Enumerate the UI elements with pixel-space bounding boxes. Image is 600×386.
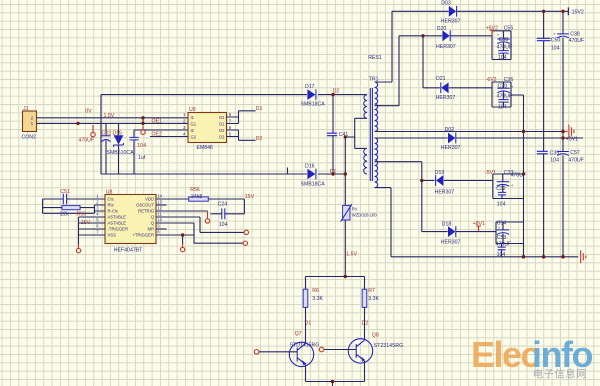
wire U9 pin3 branch	[134, 130, 188, 137]
capacitor 104 ring1	[503, 53, 505, 59]
wire ground rail mid y131.5	[375, 131, 566, 133]
wire U8 pin12	[156, 210, 208, 212]
svg-text:C53: C53	[497, 235, 507, 241]
wire stub near bottom rail	[287, 168, 289, 175]
svg-text:1uf: 1uf	[138, 155, 146, 161]
transformer TR1 secondary coil upper	[375, 82, 378, 132]
svg-text:104: 104	[497, 252, 506, 258]
svg-text:24k8: 24k8	[191, 194, 202, 200]
svg-text:HER307: HER307	[436, 95, 456, 101]
svg-text:C50: C50	[551, 37, 561, 43]
svg-text:D2: D2	[256, 136, 263, 142]
power port red pin12	[207, 211, 209, 219]
svg-text:-6V2: -6V2	[486, 77, 497, 83]
svg-text:O2: O2	[219, 134, 225, 139]
power port red below U8 left	[78, 244, 80, 248]
power port red pin8	[182, 244, 184, 247]
svg-text:1.5V: 1.5V	[104, 113, 115, 119]
power port red +6V2	[490, 30, 495, 36]
svg-text:10: 10	[157, 218, 162, 223]
svg-text:G1: G1	[191, 121, 197, 126]
varistor RV WZD020-100	[343, 205, 350, 220]
svg-text:D03: D03	[441, 0, 451, 6]
svg-text:J1: J1	[23, 106, 29, 112]
wire D21 branch	[423, 36, 492, 88]
svg-text:13: 13	[157, 200, 162, 205]
diode D18 HER307	[448, 226, 455, 237]
svg-text:ASTABLE: ASTABLE	[108, 221, 127, 226]
wire secondary tap1 to 15V2 rail	[375, 11, 569, 82]
svg-text:STD1415RG: STD1415RG	[290, 342, 320, 348]
svg-text:15V: 15V	[81, 220, 91, 226]
svg-text:D19: D19	[435, 170, 445, 176]
svg-text:3.3K: 3.3K	[368, 296, 379, 302]
filter ring +6V2 wires	[492, 31, 511, 60]
svg-text:HER307: HER307	[441, 18, 461, 24]
svg-text:HER307: HER307	[441, 145, 461, 151]
wire R6 to Q7 collector	[305, 307, 307, 343]
diode D15 TVS SMB610CA	[118, 123, 120, 174]
capacitor C24	[211, 199, 245, 214]
capacitor 104 ring4	[501, 244, 503, 257]
capacitor C32	[502, 174, 504, 192]
svg-text:HER307: HER307	[441, 239, 461, 245]
svg-text:-5V1: -5V1	[485, 170, 496, 176]
svg-text:Q7: Q7	[295, 331, 302, 337]
diode D20 HER307	[442, 30, 449, 41]
capacitor 104 ceramic	[133, 140, 135, 174]
wire U8 pin8	[156, 235, 194, 244]
resistor R6 3.3K	[303, 289, 308, 307]
svg-text:MR: MR	[147, 227, 154, 232]
svg-text:CON2: CON2	[22, 135, 37, 141]
svg-text:-TRIGGER: -TRIGGER	[108, 227, 128, 232]
diode D16 SMB18CA	[307, 169, 315, 180]
power port red on x143	[142, 126, 144, 131]
svg-text:1.5V: 1.5V	[346, 252, 357, 258]
svg-text:O1: O1	[219, 115, 225, 120]
svg-text:C57: C57	[570, 150, 580, 156]
svg-text:SMB18CA: SMB18CA	[301, 101, 326, 107]
svg-text:104: 104	[498, 55, 507, 61]
svg-text:15V: 15V	[245, 194, 255, 200]
wire secondary bottom tap to ground rail	[375, 188, 391, 257]
svg-text:R7: R7	[368, 288, 375, 294]
svg-text:OE1: OE1	[152, 119, 162, 125]
svg-text:U8: U8	[106, 190, 113, 196]
svg-text:WZD020-100: WZD020-100	[352, 213, 378, 218]
port circle Q8 base	[319, 347, 324, 352]
svg-text:电子信息网: 电子信息网	[533, 368, 587, 381]
svg-text:470UF: 470UF	[569, 38, 585, 44]
wire ground rail bottom	[391, 256, 578, 258]
svg-text:G2: G2	[191, 134, 197, 139]
svg-text:+TRIGGER: +TRIGGER	[132, 233, 154, 238]
wire U8 pins 4-7 left bus	[79, 217, 106, 244]
transistor Q8 ST2314SRG	[348, 339, 372, 363]
filter ring -5V1 wires	[493, 174, 524, 199]
wire secondary tap to D19	[375, 162, 422, 232]
svg-text:C30: C30	[499, 37, 509, 43]
svg-text:D21: D21	[436, 76, 446, 82]
svg-text:R6: R6	[312, 288, 319, 294]
svg-text:470UF: 470UF	[497, 44, 513, 50]
svg-text:C38: C38	[570, 32, 580, 38]
power ground chassis mid-right	[563, 131, 568, 133]
connector J1	[23, 111, 37, 132]
diode D02 HER307	[448, 133, 455, 144]
svg-text:C36: C36	[504, 77, 514, 83]
transformer TR1 primary coil upper	[364, 95, 367, 119]
op-amp U9 EM846	[188, 113, 227, 143]
vertical rail B with capacitor C50 104 and C39 104	[543, 11, 545, 256]
svg-text:15V2: 15V2	[572, 10, 584, 16]
wire U9 outputs top to node D1	[227, 111, 256, 124]
svg-text:SMB610CA: SMB610CA	[107, 150, 135, 156]
svg-text:O2: O2	[219, 128, 225, 133]
svg-text:+5V1: +5V1	[566, 137, 578, 143]
wire U9 outputs bottom to node D2	[227, 130, 256, 140]
svg-text:104: 104	[219, 222, 228, 228]
svg-text:RV: RV	[352, 207, 358, 212]
svg-text:VDD: VDD	[145, 197, 154, 202]
svg-text:C55: C55	[504, 25, 514, 31]
resistor R56	[156, 198, 244, 200]
svg-text:OE2: OE2	[152, 132, 162, 138]
wire R7 to Q8 collector	[364, 307, 366, 339]
power port 15V2	[567, 7, 569, 15]
svg-text:R56: R56	[190, 187, 200, 193]
port circle Q	[243, 241, 247, 245]
vertical rail C with capacitor C38 and C57	[562, 11, 564, 256]
svg-text:HER307: HER307	[435, 189, 455, 195]
svg-text:104: 104	[137, 143, 146, 149]
power ground chassis bottom-right	[581, 250, 586, 263]
vertical rail A	[523, 95, 525, 257]
wire D18 row	[422, 231, 496, 233]
capacitor C51	[43, 198, 105, 200]
svg-text:O1: O1	[219, 121, 225, 126]
svg-text:470UF: 470UF	[79, 137, 95, 143]
diode D19 HER307	[436, 175, 443, 186]
wire left loop vertical	[100, 95, 102, 174]
diode D21 HER307	[441, 82, 448, 93]
diode D03 HER307	[449, 6, 456, 17]
svg-text:C32: C32	[496, 186, 506, 192]
svg-text:0V: 0V	[85, 108, 92, 114]
wire 5V1 rail y138	[375, 137, 583, 139]
capacitor 104 ring2	[503, 102, 505, 107]
svg-text:470UF: 470UF	[497, 94, 513, 100]
wire D19 row	[422, 180, 493, 182]
transformer TR1 secondary coil lower	[375, 138, 378, 188]
capacitor C22	[105, 123, 107, 174]
svg-text:Q8: Q8	[372, 332, 379, 338]
port circle Q-bar	[244, 230, 248, 234]
svg-text:3.3K: 3.3K	[312, 296, 323, 302]
svg-text:ST2314SRG: ST2314SRG	[374, 343, 403, 349]
svg-text:C51: C51	[60, 189, 70, 195]
svg-text:D1: D1	[256, 106, 263, 112]
wire U8 pin11 Q-bar out	[156, 217, 244, 232]
capacitor C29 470UF	[503, 82, 505, 100]
svg-text:12: 12	[157, 206, 162, 211]
svg-text:D18: D18	[442, 221, 452, 227]
svg-text:D16: D16	[305, 163, 315, 169]
power port red near J1	[92, 125, 94, 132]
svg-text:Rtc: Rtc	[108, 203, 114, 208]
svg-text:104: 104	[551, 45, 560, 51]
wire varistor branch	[344, 137, 346, 277]
wire Q7 base	[259, 351, 297, 353]
logo watermark Elecinfo	[471, 334, 592, 381]
IC U8 HEF4047BT	[105, 195, 156, 244]
svg-text:EM846: EM846	[197, 145, 214, 151]
wire Q8 base	[324, 349, 356, 351]
svg-text:RETRIG: RETRIG	[138, 209, 154, 214]
diode D17 SMB18CA	[307, 89, 315, 100]
svg-text:104: 104	[498, 104, 507, 110]
wire secondary tap2 to D20 row	[375, 36, 492, 106]
svg-text:Elec: Elec	[471, 334, 540, 375]
svg-text:OSCOUT: OSCOUT	[136, 203, 154, 208]
svg-text:C29: C29	[498, 84, 508, 90]
svg-text:HER307: HER307	[436, 44, 456, 50]
capacitor C41	[332, 95, 334, 174]
junction dots J1 area	[76, 122, 79, 125]
transformer TR1 core	[370, 88, 372, 181]
svg-text:104: 104	[550, 158, 559, 164]
wire U9 pin4 branch	[150, 136, 188, 138]
wire J1 pin2 to U9 pin1	[37, 117, 189, 119]
wire vertical at x143	[142, 118, 144, 124]
svg-text:11: 11	[157, 212, 162, 217]
wire bottom rail D1 net	[101, 173, 345, 175]
wire U8 pin13 stub	[156, 204, 167, 206]
wire U8 pin9 stub	[156, 228, 167, 230]
svg-text:22k: 22k	[60, 211, 69, 217]
filter ring +8V1 wires	[496, 222, 524, 244]
wire U8 pin10 Q out	[156, 223, 243, 243]
transistor Q7 STD1415RG	[289, 342, 313, 366]
wire transistor bridge top	[306, 277, 365, 290]
svg-text:VSS: VSS	[108, 233, 117, 238]
wire primary center tap	[345, 118, 367, 148]
capacitor C30 470UF	[503, 31, 505, 51]
power port red +8V1	[476, 226, 481, 232]
svg-text:470UF: 470UF	[568, 158, 584, 164]
svg-text:104: 104	[497, 202, 506, 208]
transformer TR1 primary coil lower	[364, 148, 367, 174]
resistor R52	[43, 199, 105, 213]
svg-text:Ctc: Ctc	[108, 197, 114, 202]
svg-text:HEF4047BT: HEF4047BT	[114, 247, 143, 253]
wire top 0V rail	[101, 94, 367, 96]
svg-text:D02: D02	[445, 127, 455, 133]
resistor R7 3.3K	[362, 289, 367, 307]
capacitor 104 ring3	[501, 195, 503, 199]
svg-text:U9: U9	[189, 107, 196, 113]
wire emitter rail	[306, 382, 365, 386]
svg-text:D20: D20	[437, 26, 447, 32]
svg-text:D17: D17	[305, 84, 315, 90]
svg-text:ASTABLE: ASTABLE	[108, 215, 127, 220]
svg-text:SMB18CA: SMB18CA	[301, 181, 326, 187]
svg-text:14: 14	[157, 194, 162, 199]
svg-text:C24: C24	[218, 202, 228, 208]
filter ring -6V2 wires	[492, 82, 524, 107]
svg-text:RES1: RES1	[368, 55, 382, 61]
wire J1 pin1 to U9 pin2	[37, 122, 189, 124]
port circle Q7 base	[254, 350, 259, 355]
svg-text:R-Ctc: R-Ctc	[108, 209, 119, 214]
